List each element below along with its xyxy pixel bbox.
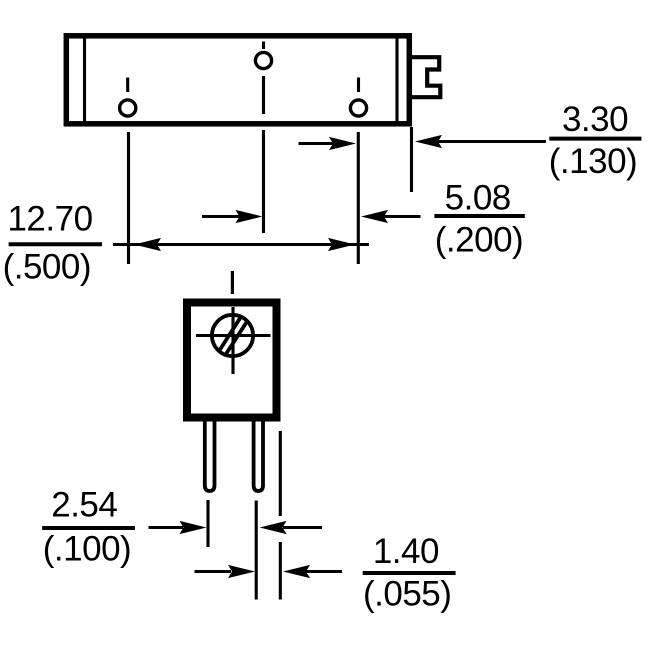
dim 3.30 left-pointing arrowhead: [415, 135, 442, 148]
extension line from pin 2 upper segment: [262, 76, 265, 114]
svg-text:3.30: 3.30: [562, 100, 628, 139]
front view: screw vertical centerline: [231, 307, 234, 374]
dim 12.70 fraction bar: [9, 242, 102, 246]
extension line from pin 1: [127, 132, 130, 264]
svg-text:5.08: 5.08: [445, 179, 511, 218]
dim 1.40 left-pointing arrowhead: [283, 565, 310, 578]
pin 3 centerline dash above: [357, 78, 360, 93]
svg-text:(.100): (.100): [43, 530, 131, 569]
pin 2 hole (center): [255, 52, 271, 68]
dim 2.54 left-pointing arrowhead: [260, 521, 287, 534]
top view: left end-cap line: [83, 34, 86, 125]
front view: right lead: [254, 421, 263, 491]
dim 2.54 right-pointing arrowhead: [180, 521, 207, 534]
front view: body outline: [187, 303, 277, 418]
top view: right end-cap line: [395, 34, 398, 125]
dim 1.40 left arrow tail line: [306, 570, 342, 573]
dim 2.54 fraction bar: [42, 526, 135, 530]
dim 1.40 fraction bar: [363, 571, 456, 575]
dim 2.54 left arrow tail line: [283, 526, 322, 529]
left lead centerline below: [206, 500, 209, 547]
dim 5.08 left arrow tail line: [384, 215, 421, 218]
dim 1.40 right-pointing arrow line: [195, 570, 232, 573]
front view: screw horizontal centerline: [196, 334, 271, 337]
dim 3.30 fraction bar: [549, 137, 641, 141]
right lead centerline below: [255, 501, 258, 600]
dim 12.70 right-pointing arrowhead: [328, 238, 355, 251]
svg-text:(.130): (.130): [549, 142, 637, 181]
extension line from pin 3: [357, 132, 360, 264]
dim 12.70 left-pointing arrowhead: [134, 238, 161, 251]
svg-text:12.70: 12.70: [7, 200, 92, 239]
dim 5.08 right-pointing arrow line: [202, 215, 240, 218]
dim 3.30 right-pointing arrow line: [299, 142, 335, 145]
pin 1 hole (left): [120, 100, 136, 116]
extension line from pin 2 lower segment: [262, 130, 265, 233]
dim 5.08 fraction bar: [434, 214, 524, 218]
pin 3 hole (right): [350, 100, 366, 116]
front view: left lead: [205, 421, 215, 491]
dim 2.54 right-pointing arrow line: [149, 526, 184, 529]
front view: screw slot line 2: [223, 316, 251, 359]
side adjuster tab on right of body: [411, 57, 440, 97]
svg-text:1.40: 1.40: [373, 532, 439, 571]
front view: adjuster screw circle: [212, 315, 253, 356]
dim 5.08 right-pointing arrowhead: [236, 210, 263, 223]
dim 3.30 right-pointing arrowhead: [329, 137, 356, 150]
svg-text:(.055): (.055): [363, 574, 451, 613]
dim 1.40 right-pointing arrowhead: [228, 565, 255, 578]
front view: centerline dash above body: [231, 271, 234, 294]
dim 5.08 left-pointing arrowhead: [361, 210, 388, 223]
top view: trimmer body outline: [66, 36, 409, 124]
body right edge extension line lower: [279, 542, 282, 600]
front view: screw slot line 1: [217, 312, 244, 355]
body right edge extension line upper: [279, 431, 282, 516]
dim 3.30 left arrow tail line: [438, 140, 546, 143]
svg-text:(.200): (.200): [435, 221, 523, 260]
svg-text:2.54: 2.54: [51, 486, 117, 525]
extension line from body right edge: [410, 127, 413, 192]
svg-text:(.500): (.500): [3, 248, 91, 287]
dim 12.70 dimension line: [113, 243, 369, 246]
pin 2 centerline dash above: [262, 42, 265, 50]
pin 1 centerline dash above: [126, 78, 129, 93]
